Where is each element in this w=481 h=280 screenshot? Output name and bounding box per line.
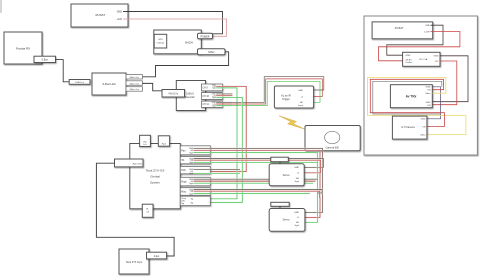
svg-text:GND: GND bbox=[117, 11, 123, 14]
svg-text:Servo: Servo bbox=[283, 173, 290, 177]
gimbal connector row Ptch bbox=[180, 167, 210, 175]
svg-text:Tarot ZYX-GS: Tarot ZYX-GS bbox=[146, 169, 165, 173]
svg-text:GND: GND bbox=[406, 55, 411, 57]
wire Ptch signal stub (green) bbox=[194, 172, 241, 174]
connector SBus Out 1 bbox=[126, 75, 142, 80]
wire pod battery 14.8V to regulator (red) bbox=[379, 32, 460, 61]
wire Tilt GND to servo1 bbox=[194, 159, 324, 168]
svg-text:Futaba RX: Futaba RX bbox=[16, 47, 30, 51]
svg-text:SBus Out: SBus Out bbox=[130, 82, 140, 85]
wire hub out2 to decoder S.BUS IN bbox=[142, 83, 162, 90]
container box FPV pod bbox=[364, 16, 477, 155]
connector CH 10 bbox=[201, 93, 222, 100]
svg-text:Ctrl/unit: Ctrl/unit bbox=[157, 41, 165, 44]
connector on servo 1 bbox=[271, 157, 289, 164]
svg-text:(Pan): (Pan) bbox=[181, 198, 186, 200]
svg-text:ON: ON bbox=[422, 126, 426, 128]
svg-text:NAZA: NAZA bbox=[185, 40, 193, 44]
regulator 12V BEC bbox=[403, 52, 440, 66]
gyro box Tarot ZYX Gyro bbox=[119, 249, 149, 274]
svg-text:4S BC: 4S BC bbox=[406, 59, 413, 61]
svg-text:Input: Input bbox=[298, 104, 303, 107]
svg-text:Sgnl: Sgnl bbox=[212, 105, 216, 107]
wire TRx GND to camera GND (dark blue) bbox=[427, 87, 441, 119]
svg-text:GND: GND bbox=[294, 167, 299, 169]
svg-text:Sgnl: Sgnl bbox=[189, 173, 193, 175]
svg-text:Pan: Pan bbox=[181, 149, 186, 152]
svg-text:4S BAT: 4S BAT bbox=[95, 13, 105, 17]
svg-text:Ry/t Gmb: Ry/t Gmb bbox=[133, 163, 143, 166]
svg-text:14.8V: 14.8V bbox=[424, 31, 430, 33]
svg-text:Trigger: Trigger bbox=[282, 98, 290, 101]
wire Flash +5V run (dark red) bbox=[194, 180, 316, 182]
svg-text:GND: GND bbox=[426, 102, 431, 104]
svg-text:Sgnl: Sgnl bbox=[212, 88, 216, 90]
svg-text:Ptch: Ptch bbox=[181, 169, 186, 172]
wire TRx Video to camera Video outer loop (yellow) bbox=[368, 78, 466, 135]
svg-text:Sgnl: Sgnl bbox=[295, 181, 300, 183]
page edge mark bbox=[0, 0, 2, 13]
wire battery GND to NAZA POWER bbox=[123, 12, 223, 34]
camera G.H Camera bbox=[392, 116, 427, 139]
wire Futaba S.Bus to hub S.BUS in bbox=[56, 60, 70, 82]
svg-text:ON: ON bbox=[427, 105, 431, 107]
gimbal Tarot box bbox=[130, 144, 181, 209]
svg-text:Av TRx: Av TRx bbox=[406, 94, 417, 98]
connector Input on gyro bbox=[147, 252, 167, 259]
svg-text:GPS: GPS bbox=[158, 39, 163, 41]
svg-text:ON: ON bbox=[427, 90, 431, 92]
svg-text:Sgnl: Sgnl bbox=[212, 97, 216, 99]
servo 1 bbox=[269, 164, 304, 186]
wire Pan GND to servo2 bbox=[194, 148, 323, 212]
svg-text:Gimbal: Gimbal bbox=[150, 175, 160, 179]
svg-text:GND: GND bbox=[298, 90, 303, 92]
svg-text:GND: GND bbox=[425, 25, 430, 27]
svg-text:PadIns: PadIns bbox=[406, 62, 414, 64]
connector S.BUS IN on decoder bbox=[162, 90, 185, 98]
module GPS on NAZA bbox=[154, 34, 167, 48]
wire Misc GND run bbox=[194, 190, 323, 194]
flight controller NAZA bbox=[154, 30, 202, 54]
svg-text:4 B.US In: 4 B.US In bbox=[168, 93, 179, 95]
svg-text:G.H Camera: G.H Camera bbox=[401, 126, 415, 129]
svg-text:Fpge: Fpge bbox=[181, 181, 187, 184]
receiver Futaba RX bbox=[4, 32, 42, 64]
hub S.Bus Hub bbox=[92, 73, 126, 95]
wire GND ring around TRx (grey) bbox=[373, 81, 442, 114]
svg-text:Bat: Bat bbox=[143, 140, 147, 143]
connector CH 11 bbox=[201, 101, 222, 107]
svg-text:12V / 5A: 12V / 5A bbox=[419, 58, 428, 61]
wire regulator GND out to AV TRx bbox=[433, 56, 469, 102]
connector CH 9 bbox=[201, 84, 222, 91]
battery 4S BAT bbox=[71, 4, 128, 27]
gimbal connector row PanTlt bbox=[180, 196, 210, 205]
wire Tilt signal to servo1 (green) bbox=[194, 162, 318, 179]
wire CH10 GND stub bbox=[216, 93, 232, 95]
svg-text:CH 11: CH 11 bbox=[202, 104, 209, 106]
wire CH9 +5V red down to gimbal Ptch row bbox=[210, 86, 246, 171]
wire NAZA S-Bus to hub out1 bbox=[142, 52, 228, 77]
connector SBus Out 2 bbox=[126, 81, 142, 86]
svg-text:SBus Out: SBus Out bbox=[130, 88, 140, 91]
svg-text:Camera 600: Camera 600 bbox=[326, 147, 340, 150]
svg-text:System: System bbox=[150, 181, 161, 185]
connector S-Bus on NAZA bbox=[198, 49, 226, 55]
svg-text:Input: Input bbox=[154, 255, 160, 258]
svg-text:Sgnl: Sgnl bbox=[189, 183, 193, 185]
gimbal connector row Pan bbox=[180, 146, 210, 155]
svg-text:SBus Out: SBus Out bbox=[130, 76, 140, 79]
svg-text:Sgnl: Sgnl bbox=[189, 162, 193, 164]
svg-text:CH 10: CH 10 bbox=[202, 96, 209, 98]
connector Ry/lt Gmb on gimbal left bbox=[115, 159, 144, 167]
wire CH11 signal to IR trigger (wrap over, green) bbox=[216, 105, 232, 107]
gimbal connector row Tilt bbox=[180, 157, 210, 165]
svg-text:4S BAT: 4S BAT bbox=[395, 26, 404, 30]
svg-text:(Tlt): (Tlt) bbox=[181, 200, 185, 203]
svg-text:GND: GND bbox=[434, 56, 439, 58]
svg-text:GND: GND bbox=[421, 119, 426, 121]
svg-text:+14V: +14V bbox=[116, 18, 122, 21]
svg-text:GND: GND bbox=[426, 87, 431, 89]
wire Pan +5V to servo2 (red) bbox=[194, 150, 321, 217]
lightning bolt bbox=[279, 116, 305, 130]
wire CH10 signal branch down to gimbal PanTlt row (green) bbox=[210, 100, 242, 203]
wire Misc signal run (green) bbox=[194, 193, 311, 195]
module FL Ctl on gimbal bottom bbox=[142, 204, 153, 217]
svg-text:S-Bus: S-Bus bbox=[208, 51, 215, 54]
decoder S.BUS Decoder bbox=[176, 81, 205, 111]
module Bat Lck on gimbal top bbox=[140, 135, 151, 146]
wire CH11 +5V to IR trigger (wrap over, red) bbox=[216, 103, 232, 105]
wire CH10 signal stub (green) bbox=[216, 96, 230, 98]
connector S.Bus on Futaba RX bbox=[34, 56, 56, 62]
wire battery +14V to NAZA POWER (red) bbox=[123, 19, 227, 36]
wire CH9 signal green down to gimbal PanTlt row bbox=[210, 88, 237, 199]
svg-text:Decoder: Decoder bbox=[185, 95, 195, 99]
battery 4S BAT (pod) bbox=[372, 22, 433, 39]
module Pgm on gimbal top bbox=[158, 136, 169, 146]
wire Flash GND run bbox=[194, 178, 319, 180]
svg-text:Sig: Sig bbox=[190, 202, 193, 204]
connector SBus Out 3 bbox=[126, 87, 142, 92]
wire Flash signal run (green) bbox=[194, 182, 314, 184]
connector S.BUS in on hub bbox=[69, 80, 90, 85]
svg-text:Sgnl: Sgnl bbox=[189, 153, 193, 155]
svg-text:CH 9: CH 9 bbox=[202, 87, 208, 89]
wire CH10 +5V stub (red) bbox=[216, 95, 232, 97]
svg-text:Video: Video bbox=[425, 93, 431, 95]
svg-text:12V: 12V bbox=[435, 61, 439, 63]
gimbal connector row Misc bbox=[180, 188, 210, 196]
wire Ptch GND stub bbox=[194, 168, 241, 170]
svg-text:Tarot ZYX Gyro: Tarot ZYX Gyro bbox=[126, 261, 143, 264]
svg-text:Servo: Servo bbox=[283, 218, 290, 222]
servo 2 bbox=[269, 209, 305, 232]
gimbal connector row Flash bbox=[180, 177, 210, 186]
svg-text:Tilt: Tilt bbox=[181, 159, 184, 162]
svg-text:S.Bus: S.Bus bbox=[42, 59, 49, 62]
wire Pan signal to servo2 (green) bbox=[194, 153, 318, 223]
wire pod battery GND to regulator bbox=[387, 25, 443, 55]
svg-text:Misc: Misc bbox=[181, 191, 187, 194]
wire Misc +5V run (red) bbox=[194, 191, 320, 198]
wire CH11 GND to IR trigger (wrap over) bbox=[216, 101, 232, 103]
wire TRx ON to camera ON with loop around TRx (red) bbox=[370, 79, 444, 126]
svg-text:GND: GND bbox=[294, 212, 299, 214]
camera box Camera 600 bbox=[305, 126, 360, 151]
svg-text:Sgnl: Sgnl bbox=[189, 193, 193, 195]
connector on servo 2 bbox=[271, 202, 289, 208]
svg-text:Sgnl: Sgnl bbox=[295, 225, 300, 227]
wire Tilt +5V to servo1 (red) bbox=[194, 160, 321, 173]
svg-text:POWER: POWER bbox=[200, 35, 209, 38]
svg-text:Video: Video bbox=[420, 135, 426, 137]
svg-text:S.BUS: S.BUS bbox=[186, 92, 194, 96]
wire gimbal Ry/lt Gmb to gyro Input bbox=[96, 163, 174, 256]
IR trigger box bbox=[274, 86, 313, 108]
svg-text:S.Bus Hub: S.Bus Hub bbox=[102, 82, 116, 86]
wire regulator 12V out to AV TRx (red) bbox=[433, 61, 457, 105]
svg-text:Sig: Sig bbox=[190, 199, 193, 201]
svg-text:Pgm: Pgm bbox=[162, 144, 167, 146]
connector POWER on NAZA bbox=[198, 33, 213, 38]
transmitter Av TRx bbox=[390, 85, 432, 108]
svg-text:S.BUS in: S.BUS in bbox=[75, 82, 85, 84]
svg-text:Sig: Sig bbox=[181, 203, 184, 205]
